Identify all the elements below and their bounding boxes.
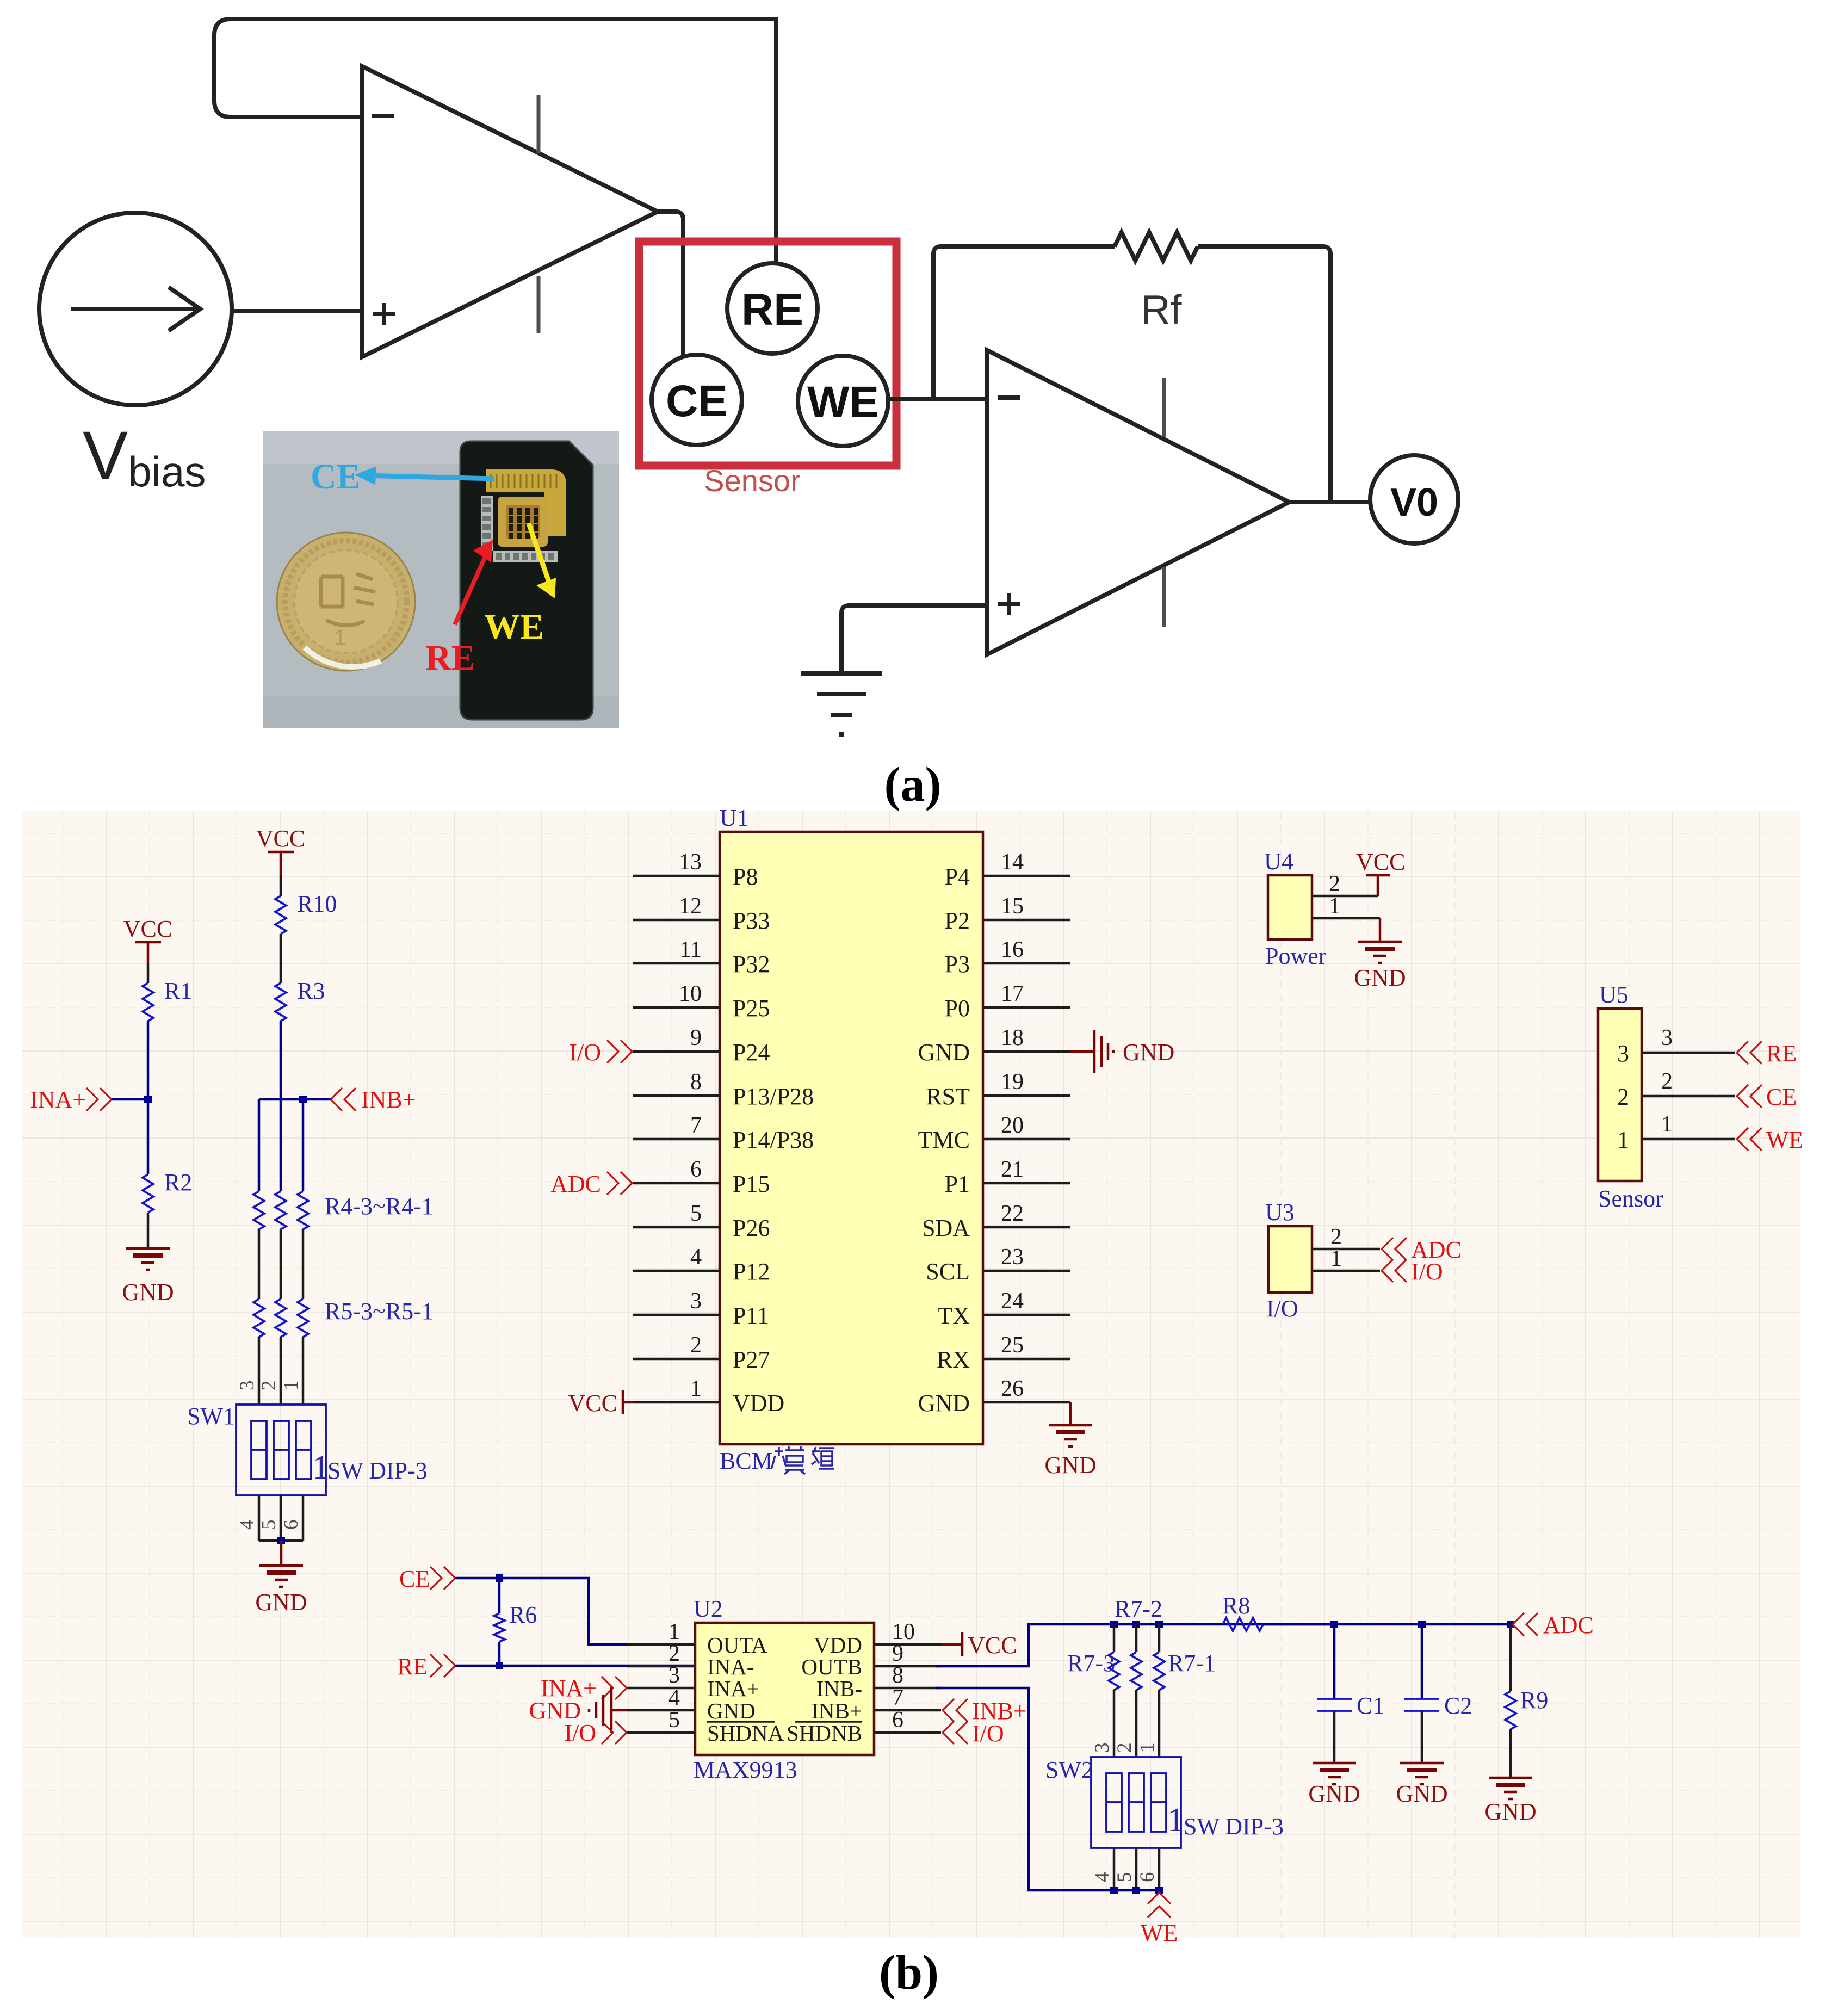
svg-text:2: 2 xyxy=(258,1381,280,1391)
wires SW1 to ground bus xyxy=(258,1495,261,1541)
svg-text:RX: RX xyxy=(937,1346,970,1373)
wire: Vbias to op-amp A1 + input xyxy=(232,309,361,313)
ground (earth) symbol xyxy=(801,671,882,676)
svg-text:18: 18 xyxy=(1001,1025,1024,1050)
svg-text:13: 13 xyxy=(679,850,702,875)
svg-text:8: 8 xyxy=(690,1069,702,1094)
port INB+ at U2 pin 7 xyxy=(943,1699,968,1722)
svg-text:R9: R9 xyxy=(1520,1687,1548,1714)
U2 pin 3 INA+ xyxy=(627,1687,695,1690)
wire: op-amp A1 feedback loop (output to inverting input) xyxy=(214,19,776,117)
svg-text:C2: C2 xyxy=(1444,1692,1472,1719)
svg-text:P2: P2 xyxy=(945,907,970,934)
svg-text:R3: R3 xyxy=(297,978,325,1004)
wire to GND xyxy=(280,1541,283,1566)
node C1 xyxy=(1330,1621,1338,1628)
svg-text:P33: P33 xyxy=(733,907,770,934)
node ADC / R9 xyxy=(1507,1621,1514,1628)
svg-text:GND: GND xyxy=(1354,964,1406,991)
svg-text:1: 1 xyxy=(334,626,346,650)
resistor R10 xyxy=(275,896,286,934)
svg-text:GND: GND xyxy=(1396,1780,1447,1807)
svg-text:14: 14 xyxy=(1001,850,1024,875)
svg-text:Sensor: Sensor xyxy=(1598,1185,1663,1212)
svg-text:1: 1 xyxy=(1617,1127,1629,1153)
wire INA+ to node xyxy=(112,1098,148,1101)
U1 pin 16 P3 xyxy=(983,962,1070,965)
wires R5 to SW1 xyxy=(258,1337,261,1405)
svg-text:1: 1 xyxy=(280,1381,302,1391)
wire/node INB+ tee xyxy=(259,1098,331,1101)
wire: op-amp A2 output to V0 xyxy=(1288,500,1371,504)
U2 pin 1 OUTA xyxy=(627,1643,695,1646)
resistor Rf xyxy=(1115,232,1198,261)
wire: Rf to op-amp A2 output xyxy=(1198,246,1330,500)
svg-text:V0: V0 xyxy=(1390,481,1438,524)
svg-text:GND: GND xyxy=(1044,1452,1096,1479)
svg-text:P15: P15 xyxy=(733,1171,770,1197)
U1 pin 17 P0 xyxy=(983,1006,1070,1009)
U1 pin 1 VDD xyxy=(634,1401,720,1404)
svg-text:P14/P38: P14/P38 xyxy=(733,1127,814,1153)
svg-text:R8: R8 xyxy=(1222,1592,1250,1619)
svg-text:1: 1 xyxy=(1136,1743,1159,1753)
svg-text:VCC: VCC xyxy=(1356,849,1405,875)
U2 pin 5 SHDNA xyxy=(627,1731,695,1734)
svg-text:24: 24 xyxy=(1001,1289,1024,1314)
U2 pin 8 INB- xyxy=(874,1687,941,1690)
svg-text:P12: P12 xyxy=(733,1258,770,1285)
output node V0 xyxy=(1370,455,1458,543)
IC U2 MAX9913 body xyxy=(695,1623,874,1755)
wire R10 to R3 xyxy=(280,934,282,983)
svg-text:R1: R1 xyxy=(164,978,192,1004)
U1 pin 12 P33 xyxy=(633,919,720,922)
svg-text:5: 5 xyxy=(690,1201,702,1226)
switch SW2 (SW DIP-3) xyxy=(1091,1757,1181,1848)
op-amp A1 negative power rail xyxy=(537,276,541,333)
U1 pin 19 RST xyxy=(983,1094,1070,1097)
svg-text:1: 1 xyxy=(312,1449,329,1486)
node C2 xyxy=(1418,1621,1426,1628)
svg-text:5: 5 xyxy=(668,1708,680,1733)
wire drops to R4 ladder xyxy=(258,1099,261,1191)
wire VCC to R10 xyxy=(280,875,282,896)
svg-text:1: 1 xyxy=(1661,1112,1673,1137)
wire U2 pin 8 INB- down to SW2 bus xyxy=(936,1688,1159,1890)
U3 pin 2 to ADC xyxy=(1312,1248,1380,1251)
op-amp A2 inverting input marker xyxy=(998,395,1020,400)
svg-text:ADC: ADC xyxy=(550,1171,601,1197)
svg-text:TMC: TMC xyxy=(918,1127,970,1153)
resistor R9 xyxy=(1505,1691,1516,1729)
wire R1 to node INA+ xyxy=(147,1021,150,1099)
wire R3 to node INB+ xyxy=(280,1021,282,1099)
svg-text:WE: WE xyxy=(1141,1920,1178,1946)
connector U3 I/O xyxy=(1268,1226,1312,1293)
svg-text:4: 4 xyxy=(668,1685,680,1710)
svg-text:SW1: SW1 xyxy=(187,1403,235,1430)
U1 pin 15 P2 xyxy=(983,919,1070,922)
Vbias arrow xyxy=(71,307,200,311)
svg-text:VCC: VCC xyxy=(568,1390,617,1417)
sensor chip card xyxy=(460,441,593,720)
wire node to R2 xyxy=(147,1099,150,1174)
resistor R3 xyxy=(275,983,286,1021)
wire CE junction to U2 pin 1 xyxy=(499,1578,695,1644)
resistor R6 xyxy=(498,1578,501,1613)
svg-text:BCM: BCM xyxy=(720,1448,773,1474)
svg-text:2: 2 xyxy=(1329,871,1340,896)
svg-text:5: 5 xyxy=(258,1520,280,1530)
svg-text:SW DIP-3: SW DIP-3 xyxy=(1184,1813,1284,1840)
svg-text:22: 22 xyxy=(1001,1201,1024,1226)
U1 pin 5 P26 xyxy=(633,1226,720,1229)
svg-text:2: 2 xyxy=(1113,1743,1136,1753)
wires SW2 to WE bus xyxy=(1113,1848,1116,1890)
SHDNA overline xyxy=(707,1721,775,1723)
svg-text:4: 4 xyxy=(236,1520,258,1530)
sensor box (red) xyxy=(639,242,896,466)
svg-text:6: 6 xyxy=(892,1708,903,1733)
svg-text:3: 3 xyxy=(236,1381,258,1391)
svg-text:MAX9913: MAX9913 xyxy=(694,1757,797,1783)
svg-text:WE: WE xyxy=(807,378,879,427)
ground GND at U1 pin 18 (bars style) xyxy=(1070,1050,1094,1053)
svg-text:4: 4 xyxy=(690,1245,702,1270)
svg-text:5: 5 xyxy=(1113,1872,1136,1883)
U1 pin 20 TMC xyxy=(983,1138,1070,1141)
op-amp A1 non-inverting input marker xyxy=(373,312,395,316)
U1 pin 3 P11 xyxy=(633,1314,720,1316)
IC U1 BCM module body xyxy=(720,832,983,1444)
svg-text:SHDNA: SHDNA xyxy=(707,1721,784,1746)
svg-text:8: 8 xyxy=(892,1663,903,1688)
U1 pin 18 GND xyxy=(983,1050,1070,1053)
svg-text:Power: Power xyxy=(1265,943,1327,969)
svg-text:INB+: INB+ xyxy=(361,1086,416,1113)
svg-text:1: 1 xyxy=(690,1376,702,1401)
wire U2 pin 9 OUTB to R7 bus xyxy=(936,1624,1338,1666)
svg-text:P1: P1 xyxy=(945,1171,970,1197)
U1 pin 9 P24 xyxy=(633,1050,720,1053)
svg-text:3: 3 xyxy=(690,1289,702,1314)
resistor R8 xyxy=(1223,1618,1263,1631)
resistors R5-3~R5-1 xyxy=(253,1299,264,1337)
svg-text:I/O: I/O xyxy=(569,1039,601,1066)
U1 pin 22 SDA xyxy=(983,1226,1070,1229)
resistor R2 xyxy=(143,1174,153,1213)
svg-text:3: 3 xyxy=(668,1663,680,1688)
svg-text:4: 4 xyxy=(1091,1872,1113,1883)
schematic sheet background xyxy=(22,811,1800,1938)
resistors R4-3~R4-1 xyxy=(253,1191,264,1229)
svg-text:1: 1 xyxy=(1330,1246,1342,1271)
svg-text:GND: GND xyxy=(1484,1798,1536,1825)
U2 pin 9 OUTB xyxy=(874,1665,941,1668)
svg-text:U4: U4 xyxy=(1264,848,1293,875)
svg-text:VCC: VCC xyxy=(968,1632,1017,1659)
R7 bus junctions xyxy=(1110,1621,1118,1628)
U1 pin 25 RX xyxy=(983,1358,1070,1361)
svg-text:P11: P11 xyxy=(733,1302,769,1329)
svg-text:20: 20 xyxy=(1001,1113,1024,1138)
U1 pin 24 TX xyxy=(983,1314,1070,1316)
svg-text:3: 3 xyxy=(1617,1040,1629,1067)
svg-text:GND: GND xyxy=(1123,1039,1174,1066)
svg-text:R7-2: R7-2 xyxy=(1115,1596,1162,1622)
svg-text:CE: CE xyxy=(666,376,728,426)
svg-text:P26: P26 xyxy=(733,1215,770,1241)
svg-text:R6: R6 xyxy=(509,1601,537,1628)
U4 pin 1 to GND xyxy=(1312,917,1380,920)
svg-text:P24: P24 xyxy=(733,1039,770,1066)
svg-text:RE: RE xyxy=(397,1653,428,1680)
svg-text:GND: GND xyxy=(918,1039,970,1066)
electrode RE xyxy=(727,263,818,354)
U2 pin 10 VDD xyxy=(874,1643,941,1646)
U1 pin 14 P4 xyxy=(983,875,1070,877)
svg-text:U3: U3 xyxy=(1265,1199,1295,1226)
svg-text:GND: GND xyxy=(918,1390,970,1417)
svg-text:GND: GND xyxy=(707,1698,756,1723)
U1 pin 8 P13/P28 xyxy=(633,1094,720,1097)
svg-text:RE: RE xyxy=(1766,1040,1797,1067)
U3 pin 1 to I/O xyxy=(1312,1270,1380,1272)
op-amp A1 (unity-gain buffer) xyxy=(362,66,658,357)
svg-text:CE: CE xyxy=(399,1566,430,1592)
svg-text:U5: U5 xyxy=(1599,981,1629,1008)
wire: op-amp A2 feedback loop with Rf xyxy=(933,246,1115,399)
U2 pin 6 SHDNB xyxy=(874,1731,941,1734)
op-amp A2 positive power rail xyxy=(1162,378,1166,437)
U1 pin 7 P14/P38 xyxy=(633,1138,720,1141)
svg-text:1: 1 xyxy=(1167,1802,1184,1839)
svg-text:R4-3~R4-1: R4-3~R4-1 xyxy=(325,1193,434,1220)
svg-text:9: 9 xyxy=(690,1025,702,1050)
wire: WE to op-amp A2 inverting input xyxy=(888,397,986,401)
node: R1/R2/INA+ junction xyxy=(144,1096,152,1103)
U1 pin 11 P32 xyxy=(633,962,720,965)
U2 pin 2 INA- xyxy=(627,1665,695,1668)
connector U5 Sensor xyxy=(1598,1009,1642,1181)
U2 pin 4 GND xyxy=(627,1709,695,1712)
wire CE to junction xyxy=(455,1577,499,1580)
svg-text:R5-3~R5-1: R5-3~R5-1 xyxy=(325,1298,434,1325)
U1 pin 6 P15 xyxy=(633,1182,720,1185)
svg-text:INB-: INB- xyxy=(816,1676,862,1701)
svg-text:ADC: ADC xyxy=(1543,1612,1594,1638)
svg-text:23: 23 xyxy=(1001,1245,1024,1270)
svg-text:16: 16 xyxy=(1001,937,1024,962)
switch SW1 (SW DIP-3) xyxy=(236,1405,326,1495)
svg-text:SW2: SW2 xyxy=(1045,1757,1093,1783)
resistors R7-3 R7-2 R7-1 xyxy=(1109,1652,1119,1690)
electrode WE xyxy=(798,356,888,446)
ground GND (R2) xyxy=(126,1247,170,1250)
svg-text:I/O: I/O xyxy=(1266,1295,1298,1322)
svg-text:12: 12 xyxy=(679,894,702,919)
svg-text:I/O: I/O xyxy=(972,1720,1004,1747)
svg-text:17: 17 xyxy=(1001,981,1024,1006)
svg-text:15: 15 xyxy=(1001,894,1024,919)
svg-text:25: 25 xyxy=(1001,1333,1024,1358)
svg-text:C1: C1 xyxy=(1357,1692,1384,1719)
op-amp A1 inverting input marker xyxy=(372,114,394,118)
svg-text:VDD: VDD xyxy=(733,1390,784,1417)
photo: coin and sensor chip xyxy=(263,431,619,728)
svg-text:10: 10 xyxy=(679,981,702,1006)
svg-text:U2: U2 xyxy=(694,1596,723,1622)
svg-text:RE: RE xyxy=(741,285,803,335)
op-amp A2 (transimpedance) xyxy=(987,350,1289,654)
U1 pin 10 P25 xyxy=(633,1006,720,1009)
current source Vbias circle xyxy=(39,213,232,405)
svg-text:6: 6 xyxy=(690,1157,702,1182)
svg-text:SW DIP-3: SW DIP-3 xyxy=(327,1457,428,1484)
power VCC at U2 pin 10 xyxy=(941,1643,962,1646)
svg-text:INA+: INA+ xyxy=(30,1086,86,1113)
svg-text:(b): (b) xyxy=(879,1946,939,2000)
svg-text:R7-3: R7-3 xyxy=(1067,1650,1115,1677)
U1 pin 23 SCL xyxy=(983,1270,1070,1272)
svg-text:TX: TX xyxy=(938,1302,970,1329)
svg-text:R10: R10 xyxy=(297,890,337,917)
wire R2 to GND xyxy=(147,1213,150,1248)
svg-text:P27: P27 xyxy=(733,1346,770,1373)
svg-text:INB+: INB+ xyxy=(811,1698,862,1723)
svg-text:(a): (a) xyxy=(884,758,942,812)
coin xyxy=(277,533,415,671)
svg-text:VCC: VCC xyxy=(256,825,305,852)
U1 pin 26 GND xyxy=(983,1401,1070,1404)
wire RE to U2 pin 2 xyxy=(455,1665,695,1667)
wires bus to R7 resistors xyxy=(1113,1624,1116,1652)
svg-text:P32: P32 xyxy=(733,951,770,978)
svg-text:Sensor: Sensor xyxy=(704,463,800,498)
resistor R1 xyxy=(143,983,153,1021)
svg-text:WE: WE xyxy=(1766,1127,1803,1153)
svg-text:SDA: SDA xyxy=(922,1215,970,1241)
svg-text:21: 21 xyxy=(1001,1157,1024,1182)
ground GND (C2) xyxy=(1400,1762,1444,1765)
svg-text:7: 7 xyxy=(892,1685,903,1710)
chip gold pad xyxy=(486,469,566,536)
svg-text:1: 1 xyxy=(1329,894,1340,919)
svg-text:CE: CE xyxy=(311,457,361,497)
svg-text:2: 2 xyxy=(1617,1084,1629,1110)
svg-text:P0: P0 xyxy=(945,995,970,1022)
svg-text:3: 3 xyxy=(1661,1025,1673,1050)
ground GND at U1 pin 26 xyxy=(1069,1402,1072,1425)
svg-text:SCL: SCL xyxy=(926,1258,970,1285)
U4 pin 2 to VCC xyxy=(1312,895,1378,898)
SHDNB overline xyxy=(795,1721,862,1723)
wires R4 to R5 xyxy=(258,1229,261,1299)
U1 pin 4 P12 xyxy=(633,1270,720,1272)
svg-text:WE: WE xyxy=(484,607,544,647)
svg-text:6: 6 xyxy=(280,1520,302,1530)
wire VCC to R1 xyxy=(147,964,150,983)
svg-text:SHDNB: SHDNB xyxy=(787,1721,862,1746)
svg-text:P3: P3 xyxy=(945,951,970,978)
connector U4 Power xyxy=(1268,875,1312,939)
U1 pin 2 P27 xyxy=(633,1358,720,1361)
U1 pin 21 P1 xyxy=(983,1182,1070,1185)
wire: feedback top rail down to RE xyxy=(774,17,778,263)
wire: op-amp A1 output down to CE xyxy=(655,212,683,355)
wire: ground to op-amp A2 + input xyxy=(841,605,986,672)
svg-text:R2: R2 xyxy=(164,1169,192,1196)
ground GND (SW1) xyxy=(259,1564,303,1567)
svg-text:Rf: Rf xyxy=(1141,287,1182,332)
svg-text:VCC: VCC xyxy=(123,916,172,942)
svg-text:RST: RST xyxy=(926,1083,970,1110)
svg-text:7: 7 xyxy=(690,1113,702,1138)
op-amp A1 positive power rail xyxy=(537,95,541,153)
svg-text:26: 26 xyxy=(1001,1376,1024,1401)
svg-text:19: 19 xyxy=(1001,1069,1024,1094)
port ADC xyxy=(1513,1613,1538,1636)
port WE below SW2 xyxy=(1148,1893,1171,1918)
U1 pin 13 P8 xyxy=(633,875,720,877)
ground GND (C1) xyxy=(1313,1762,1356,1765)
svg-text:CE: CE xyxy=(1766,1084,1797,1110)
port I/O at U2 pin 6 xyxy=(943,1721,968,1744)
wire node to R9 xyxy=(1509,1624,1512,1691)
capacitor C1 xyxy=(1333,1624,1336,1699)
ground GND (R9) xyxy=(1489,1777,1532,1779)
svg-text:P25: P25 xyxy=(733,995,770,1022)
svg-text:INA+: INA+ xyxy=(707,1676,759,1701)
wire R8 to ADC node xyxy=(1263,1623,1511,1626)
svg-text:I/O: I/O xyxy=(564,1720,596,1746)
svg-text:3: 3 xyxy=(1091,1743,1113,1753)
svg-text:P8: P8 xyxy=(733,863,758,890)
op-amp A2 non-inverting input marker xyxy=(998,602,1020,606)
coin emboss marks xyxy=(321,574,375,626)
wires R7 to SW2 xyxy=(1113,1690,1116,1757)
U2 pin 7 INB+ xyxy=(874,1709,941,1712)
svg-text:2: 2 xyxy=(1661,1069,1673,1094)
capacitor C2 xyxy=(1421,1624,1423,1699)
svg-text:I/O: I/O xyxy=(1411,1258,1443,1285)
svg-text:U1: U1 xyxy=(720,805,749,831)
svg-text:GND: GND xyxy=(255,1589,307,1616)
svg-text:11: 11 xyxy=(680,937,702,962)
svg-text:R7-1: R7-1 xyxy=(1168,1650,1216,1677)
svg-text:2: 2 xyxy=(690,1333,702,1358)
op-amp A2 negative power rail xyxy=(1162,567,1166,627)
svg-text:P13/P28: P13/P28 xyxy=(733,1083,814,1110)
svg-text:GND: GND xyxy=(122,1279,174,1306)
svg-text:RE: RE xyxy=(425,638,475,678)
svg-text:P4: P4 xyxy=(945,863,970,890)
svg-text:GND: GND xyxy=(1308,1780,1360,1807)
port INB+ xyxy=(331,1088,356,1111)
svg-text:6: 6 xyxy=(1136,1872,1159,1883)
electrode CE xyxy=(652,355,742,445)
